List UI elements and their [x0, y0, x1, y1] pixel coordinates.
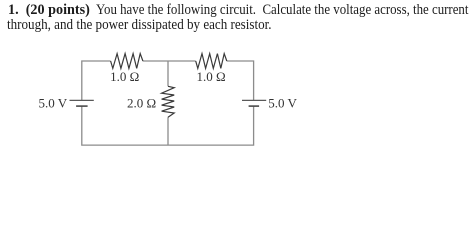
- wire bottom: left battery down, across bottom, up to right battery: [82, 106, 254, 145]
- battery V1 long plate (left): [70, 99, 94, 101]
- svg-text:5.0 V: 5.0 V: [268, 96, 297, 111]
- problem statement line 1: [8, 3, 90, 18]
- svg-text:2.0 Ω: 2.0 Ω: [127, 95, 156, 110]
- wire top-left: top-left corner down to left battery, across to resistor R1: [82, 61, 111, 100]
- wire middle branch top: node at top wire down to resistor R3: [167, 61, 169, 86]
- wire middle branch bottom: R3 down to bottom wire: [167, 117, 169, 145]
- wire top-middle: R1 to R2 across node at middle branch: [143, 60, 196, 62]
- resistor R3 2.0 ohm (middle vertical): [162, 86, 175, 117]
- resistor R2 1.0 ohm (top right): [196, 54, 227, 69]
- svg-text:1.0 Ω: 1.0 Ω: [110, 69, 139, 84]
- svg-text:1.0 Ω: 1.0 Ω: [197, 69, 226, 84]
- wire top-right: R2 to top-right corner down to right battery: [227, 61, 254, 100]
- battery V2 short plate (right): [249, 105, 260, 107]
- battery V1 short plate (left): [76, 105, 88, 107]
- resistor R1 1.0 ohm (top left): [111, 54, 143, 69]
- problem statement line 2: [7, 18, 272, 33]
- battery V2 long plate (right): [242, 99, 266, 101]
- svg-text:5.0 V: 5.0 V: [39, 96, 68, 111]
